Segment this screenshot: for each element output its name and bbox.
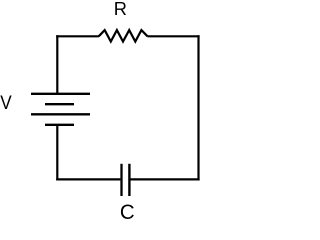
wire left side upper (to battery) [56, 35, 58, 94]
wire bottom-right segment [130, 178, 199, 180]
resistor R [99, 30, 148, 41]
svg-text:C: C [120, 200, 135, 224]
wire top-right segment [147, 35, 199, 37]
wire top-left segment [56, 35, 99, 37]
wire left side lower (from battery) [56, 125, 58, 181]
battery V [31, 94, 90, 125]
svg-text:V: V [0, 91, 12, 113]
wire right side [197, 35, 199, 180]
wire bottom-left segment [56, 178, 120, 180]
capacitor C [122, 164, 130, 196]
svg-text:R: R [114, 0, 127, 19]
